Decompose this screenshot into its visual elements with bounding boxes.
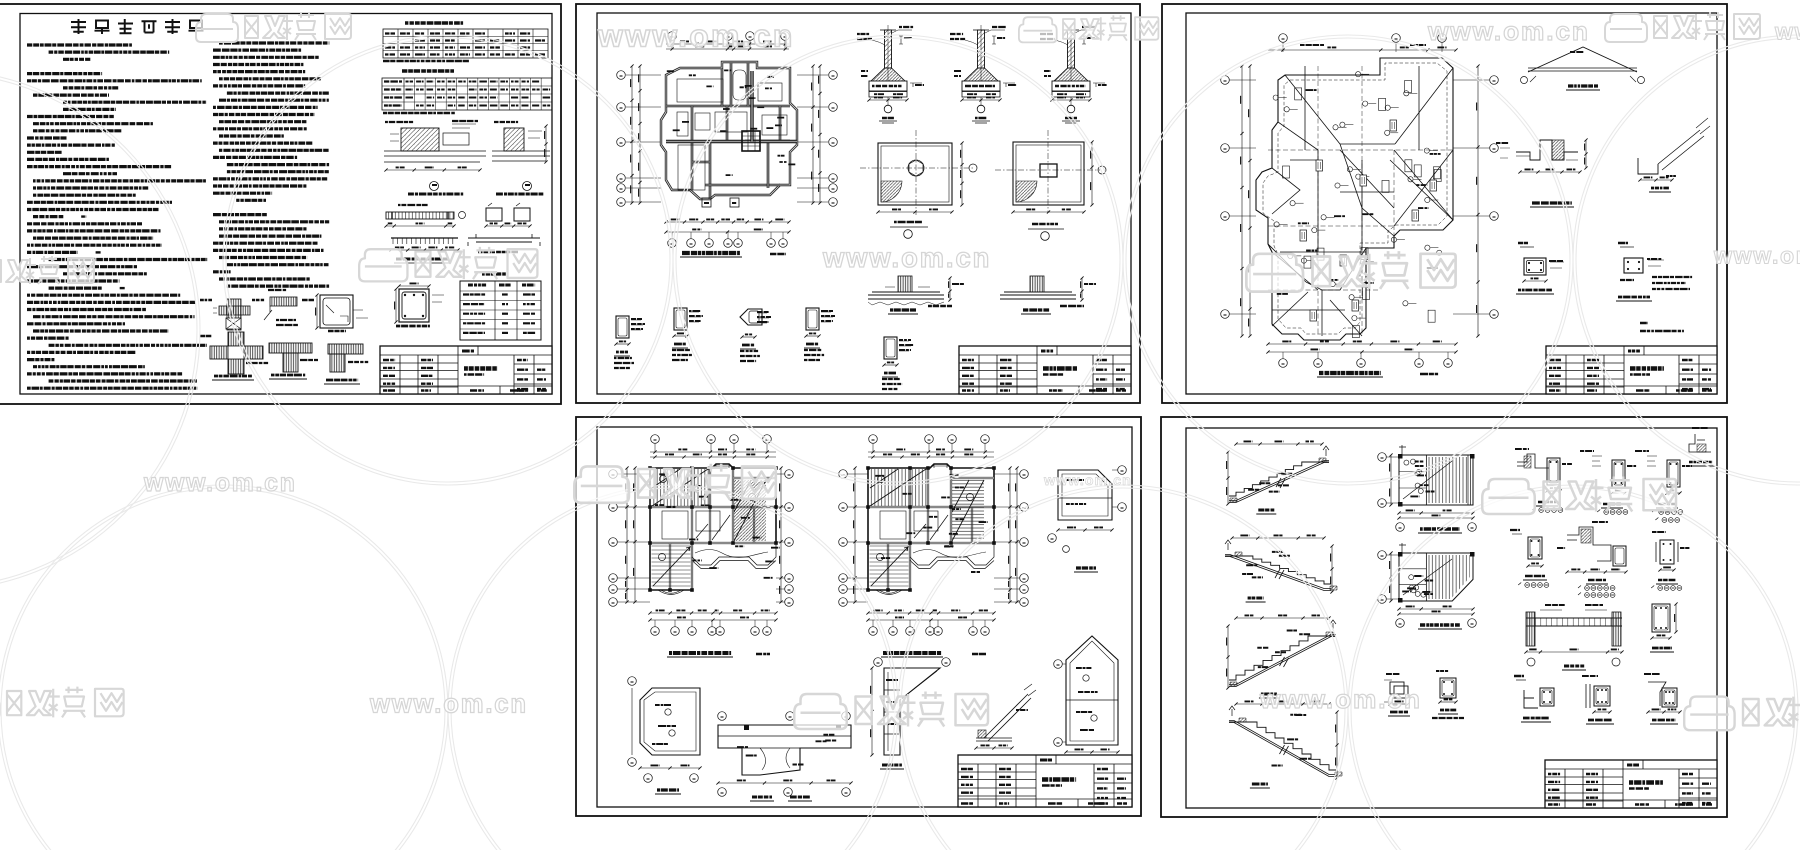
column detail GZ5: [882, 337, 914, 389]
sheet 1 notes text left column: [27, 45, 208, 388]
svg-text:www.om.cn: www.om.cn: [1774, 19, 1800, 45]
sheet 3 roof plan top axis: [1268, 34, 1458, 52]
sheet 2 plan bottom axis: [664, 198, 790, 247]
sheet 1 notes text right column: [213, 43, 330, 286]
sheet 5: stair details sheet border: [1161, 417, 1727, 817]
sheet 2 foundation plan top axis: [666, 32, 789, 51]
sheet 4 third floor framing plan: [866, 435, 996, 636]
sheet 4 left plan left axis: [609, 466, 650, 606]
sheet 5 stair section TB-4: [1229, 701, 1342, 788]
sheet 4 right plan left axis: [839, 466, 868, 606]
svg-text:www.om.cn: www.om.cn: [1427, 16, 1590, 46]
sheet 1 detail (b) beam end: [252, 290, 299, 325]
sheet 5 title block: [1545, 760, 1717, 808]
sheet 1 large beam section with stirrup: [394, 283, 444, 326]
sheet 3 title block: [1546, 346, 1717, 394]
sheet 5 small sections mid-bottom: [1384, 674, 1410, 716]
sheet 5 right details row 1: XL-1: [1515, 449, 1573, 512]
svg-text:www.om.cn: www.om.cn: [822, 242, 991, 273]
column detail GZL: [804, 308, 836, 360]
sheet 4 right plan caption: [881, 653, 987, 657]
sheet 1: structural design notes 结构设计说明: [0, 4, 561, 404]
svg-text:www.om.cn: www.om.cn: [1259, 684, 1422, 714]
sheet 2 pile cap plan B: [995, 130, 1106, 240]
sheet 5 column section right of XL-6: [1650, 602, 1678, 652]
sheet 3 gutter detail 1: [1496, 138, 1588, 207]
svg-text:www.om.cn: www.om.cn: [597, 17, 795, 53]
sheet 4 detail YB-2 YB-3: [716, 712, 852, 801]
sheet 1 title 结构设计说明: [71, 19, 204, 34]
sheet 1 detail (c) beam section: [302, 293, 368, 331]
sheet 3 ring beam detail 1: [1516, 243, 1564, 294]
sheet 5 right detail XL-2: [1580, 451, 1637, 514]
svg-text:www.om.cn: www.om.cn: [369, 691, 528, 719]
sheet 5 right detail XL-5 (Z-step): [1557, 522, 1628, 597]
sheet 4 left plan right axis: [776, 466, 793, 606]
watermark www.om.cn texts: [143, 16, 1800, 719]
sheet 3 gutter detail 2 (sloped): [1638, 118, 1710, 192]
sheet 1 detail (d) cross joint: [200, 332, 269, 380]
sheet 1 hoop spacing detail: [389, 238, 459, 263]
sheet 4 detail VB-4: [1048, 466, 1127, 572]
footing section 1: [857, 25, 925, 123]
sheet 5 stair section TB-3: [1226, 615, 1336, 698]
sheet 4 left plan caption: [667, 653, 771, 657]
sheet 5 right detail XL-7: [1651, 532, 1690, 590]
column detail C21: [672, 308, 704, 360]
sheet 4: floor framing plans sheet border: [576, 417, 1141, 816]
sheet 4 right plan right axis: [994, 466, 1028, 606]
sheet 3 ring beam detail 2: [1616, 243, 1693, 301]
sheet 3 roof hip and ridge lines: [1268, 66, 1453, 336]
sheet 2 pile cap plan A: [860, 130, 977, 238]
sheet 2 foundation beam section A-A: [868, 276, 965, 314]
sheet 2 plan caption 基础平面布置图: [680, 253, 787, 257]
sheet 1 detail T joint: [269, 343, 319, 379]
column detail C23: [740, 309, 772, 361]
sheet 2 foundation beam section B-B: [1000, 276, 1097, 314]
sheet 3 caption 屋面结构布置图: [1317, 373, 1439, 377]
column detail GZ1: [614, 316, 646, 368]
sheet 3 roof plan bottom axis: [1266, 341, 1457, 367]
sheet 1 beam reinforcement table: [460, 274, 541, 340]
sheet 1 detail corner joint: [324, 344, 369, 384]
footing section 3: [1040, 25, 1107, 123]
sheet 5 stair plan level 2: [1378, 445, 1477, 533]
sheet 3 roof plan outline: [1256, 58, 1453, 340]
sheet 2 title block: [959, 346, 1131, 394]
sheet 3 roof plan annotations: [1273, 72, 1450, 338]
footing section 2: [950, 25, 1018, 123]
sheet 1 concrete cover table: [383, 23, 548, 61]
sheet 2 foundation plan strip footings: [661, 62, 797, 199]
sheet 4 eave detail: [974, 684, 1036, 760]
sheet 3 roof plan right axis: [1453, 64, 1498, 337]
sheet 4 detail YB-6: [1054, 636, 1120, 777]
sheet 3 roof ridge section detail: [1521, 47, 1645, 90]
sheet 3 roof plan left axis: [1221, 64, 1256, 337]
sheet 4 second floor framing plan: [648, 435, 780, 636]
sheet 4 detail YB-5: [870, 658, 950, 769]
sheet 1 wall footing detail A: [384, 121, 486, 194]
sheet 2: foundation plan sheet border: [576, 4, 1140, 403]
sheet 5 right detail row3 c: [1644, 674, 1682, 724]
sheet 1 lap detail right: [468, 234, 540, 252]
sheet 1 title block: [380, 346, 552, 394]
sheet 1 anchorage length table: [382, 71, 552, 113]
svg-text:www.om.cn: www.om.cn: [1713, 243, 1800, 269]
sheet 1 beam elevation strip: [384, 205, 465, 228]
sheet 2 foundation plan left axis: [617, 64, 661, 206]
sheet 5 right detail XL-3: [1635, 451, 1693, 522]
sheet 5 right detail row3 b: [1582, 676, 1614, 724]
sheet 5 right details row 2: X1-1: [1510, 530, 1549, 587]
sheet 3: roof framing plan sheet border: [1162, 4, 1727, 403]
svg-text:www.om.cn: www.om.cn: [1043, 473, 1132, 489]
sheet 5 corner detail top-right: [1687, 428, 1715, 466]
svg-text:www.om.cn: www.om.cn: [143, 470, 297, 497]
sheet 4 detail YB-1: [628, 677, 702, 794]
sheet 5 right details row 3: [1514, 676, 1554, 722]
sheet 5 stair section TB-2: [1225, 535, 1337, 602]
sheet 1 wall footing detail B: [492, 122, 550, 194]
sheet 5 stair section TB-1: [1226, 441, 1329, 514]
sheet 5 landing beam elevation XL-6: [1524, 605, 1623, 670]
sheet 1 stirrup mini sections: [484, 203, 531, 228]
sheet 3 roof beam label boxes: [1300, 120, 1437, 321]
sheet 1 detail (a) column-beam joint: [200, 299, 250, 330]
sheet 3 notes: [1640, 323, 1685, 331]
sheet 2 foundation plan right axis: [797, 64, 837, 206]
sheet 5 small section XL-H: [1432, 671, 1465, 718]
sheet 5 stair plan level 3: [1378, 543, 1477, 629]
sheet 4 title block: [958, 755, 1132, 807]
